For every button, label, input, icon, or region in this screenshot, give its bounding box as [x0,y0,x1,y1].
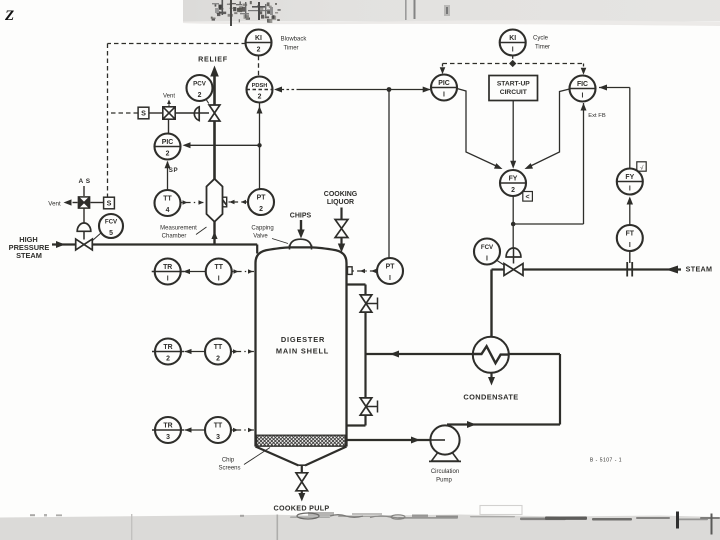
svg-text:Timer: Timer [535,45,550,51]
svg-text:STEAM: STEAM [686,265,713,274]
svg-text:TR: TR [163,264,172,271]
svg-text:2: 2 [166,151,170,158]
svg-text:TR: TR [163,344,172,351]
svg-text:KI: KI [255,35,262,42]
svg-text:Pump: Pump [436,478,452,484]
svg-text:Vent: Vent [48,201,61,208]
svg-text:Chamber: Chamber [162,234,187,240]
svg-text:2: 2 [257,47,261,54]
svg-text:<: < [526,194,530,201]
svg-text:CONDENSATE: CONDENSATE [463,393,518,402]
svg-text:FIC: FIC [577,81,588,88]
svg-text:FCV: FCV [481,244,494,251]
svg-text:LIQUOR: LIQUOR [327,199,354,206]
svg-text:I: I [167,276,169,283]
svg-text:FY: FY [625,174,634,181]
svg-text:Cycle: Cycle [533,36,549,42]
svg-text:PT: PT [386,263,396,270]
svg-text:B - 5107 - 1: B - 5107 - 1 [590,458,622,464]
svg-text:TT: TT [214,264,223,271]
svg-text:TT: TT [214,422,223,429]
svg-text:I: I [389,275,391,282]
svg-text:Screens: Screens [218,466,240,472]
svg-text:TT: TT [163,195,172,202]
svg-text:DIGESTER: DIGESTER [281,335,325,344]
svg-text:A S: A S [78,178,90,185]
svg-text:2: 2 [198,92,202,99]
svg-text:Blowback: Blowback [281,37,308,43]
svg-text:START-UP: START-UP [497,80,530,87]
svg-text:STEAM: STEAM [16,251,42,260]
svg-text:PDSH: PDSH [252,83,268,89]
svg-text:COOKED PULP: COOKED PULP [273,504,329,513]
svg-text:PIC: PIC [162,139,174,146]
svg-text:3: 3 [166,434,170,441]
svg-text:I: I [629,242,631,249]
svg-text:PT: PT [257,194,267,201]
svg-text:Measurement: Measurement [160,226,197,232]
svg-text:CHIPS: CHIPS [290,213,312,220]
svg-text:I: I [512,47,514,54]
svg-text:I: I [629,186,631,193]
svg-text:S: S [107,199,112,208]
svg-text:KI: KI [509,35,516,42]
svg-text:I: I [443,92,445,99]
svg-text:I: I [582,93,584,100]
svg-text:FCV: FCV [105,218,118,225]
svg-text:2: 2 [166,356,170,363]
svg-text:FT: FT [626,230,635,237]
svg-text:Z: Z [4,8,14,24]
svg-text:RELIEF: RELIEF [198,55,228,64]
svg-text:Capping: Capping [251,226,273,232]
svg-text:2: 2 [258,94,262,101]
svg-text:CIRCUIT: CIRCUIT [500,89,528,96]
svg-text:Vent: Vent [163,94,175,100]
svg-text:SP: SP [169,167,178,174]
svg-text:2: 2 [259,206,263,213]
svg-text:PCV: PCV [193,80,207,87]
svg-text:MAIN SHELL: MAIN SHELL [276,347,329,356]
svg-text:Chip: Chip [222,458,235,464]
svg-text:2: 2 [216,356,220,363]
svg-text:Valve: Valve [253,234,268,240]
svg-text:TR: TR [163,422,172,429]
svg-text:Circulation: Circulation [431,469,459,475]
svg-text:Ext FB: Ext FB [588,113,606,119]
svg-text:S: S [141,109,146,118]
svg-text:Timer: Timer [283,46,298,52]
svg-text:3: 3 [216,434,220,441]
svg-text:COOKING: COOKING [324,191,358,198]
svg-text:I: I [486,256,488,263]
svg-text:I: I [218,276,220,283]
svg-text:4: 4 [166,207,170,214]
svg-text:2: 2 [511,187,515,194]
svg-text:TT: TT [214,344,223,351]
svg-text:FY: FY [509,175,518,182]
svg-text:5: 5 [109,230,113,237]
svg-text:PIC: PIC [438,80,450,87]
